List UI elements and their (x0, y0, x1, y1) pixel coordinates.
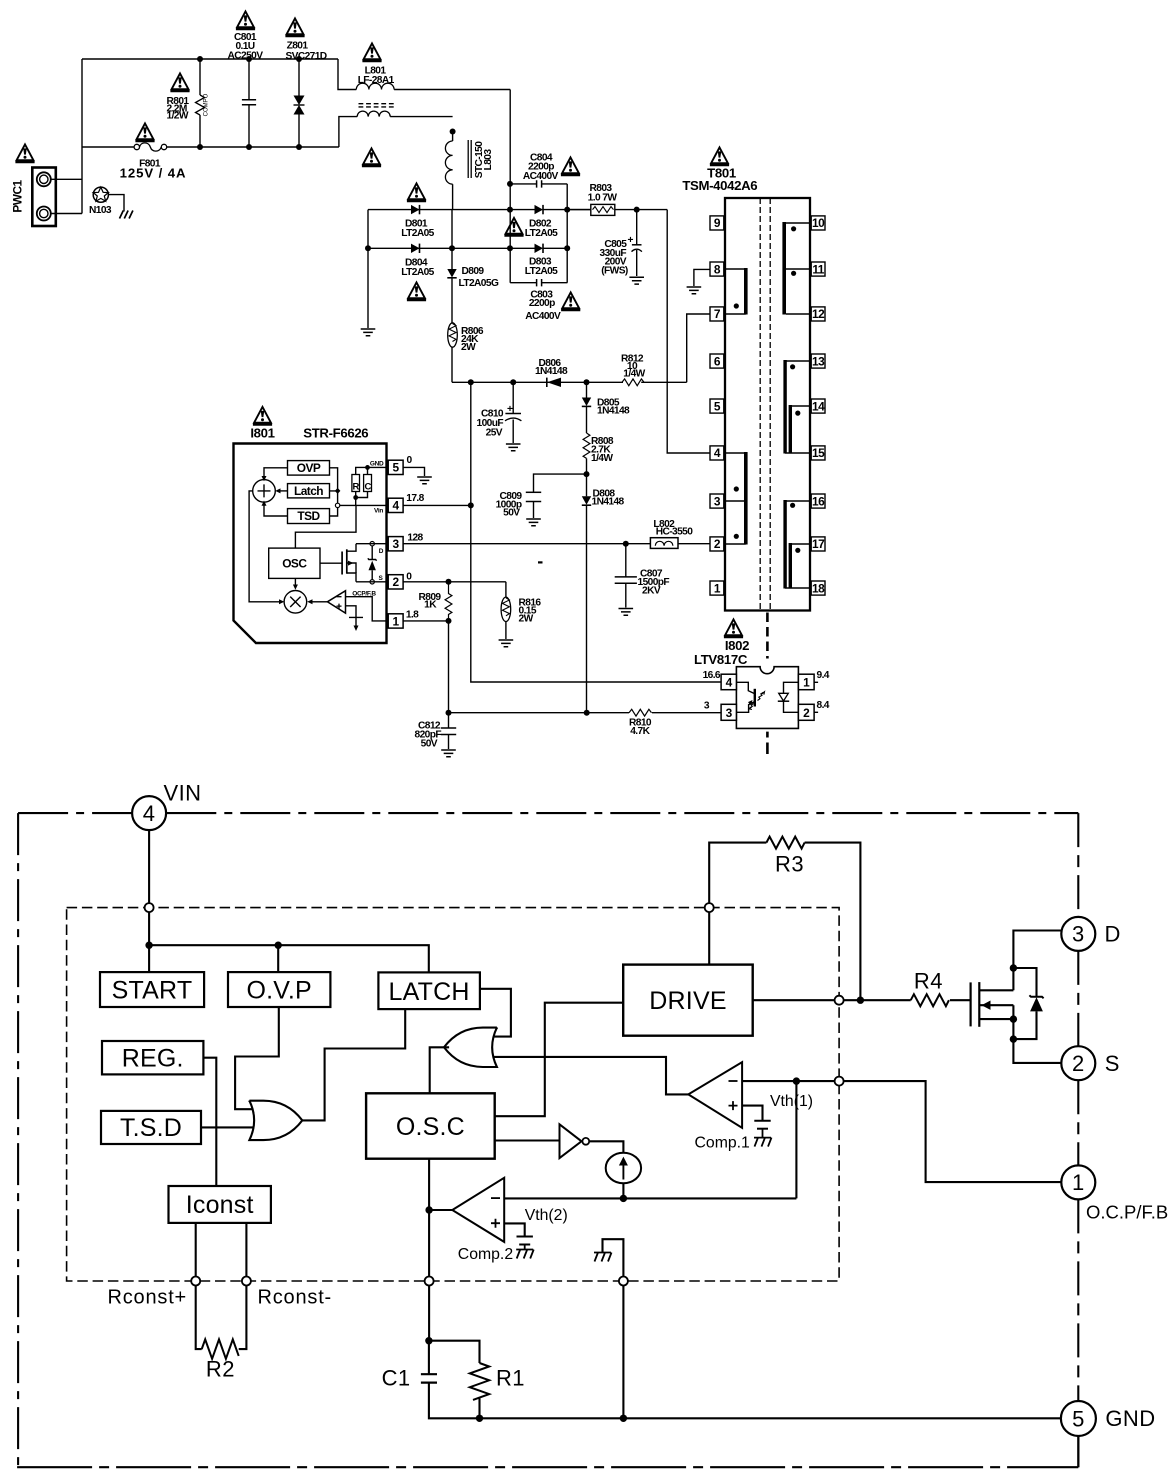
inductor L803 (445, 132, 494, 210)
svg-text:Z801: Z801 (287, 41, 309, 52)
LED (I802) (778, 682, 799, 712)
svg-text:12: 12 (812, 307, 825, 321)
svg-text:Vin: Vin (374, 507, 383, 514)
chassis ground (Vth2) (516, 1250, 534, 1259)
svg-text:18: 18 (812, 581, 825, 595)
svg-text:4: 4 (393, 499, 400, 513)
svg-text:VIN: VIN (164, 781, 202, 806)
current source (606, 1153, 641, 1199)
wire: column from L801 upper output down to C803 (509, 90, 511, 283)
node dot (left vertical D804 row) (365, 245, 371, 251)
stray mark (538, 561, 543, 563)
warning triangle (C801) (236, 11, 255, 29)
wire: R803 node to T801 pin4 (667, 210, 710, 453)
resistor R812 (621, 354, 646, 386)
svg-text:5: 5 (1072, 1406, 1085, 1431)
ground (C812) (441, 750, 456, 757)
block DRIVE (623, 965, 753, 1036)
svg-text:R1: R1 (496, 1366, 525, 1391)
node dot (zener top) (1010, 964, 1017, 971)
junction marker (Vin/bus) (335, 503, 339, 507)
block REG. (102, 1041, 203, 1074)
wire: OSC to inverter (495, 1139, 559, 1141)
svg-text:Iconst: Iconst (186, 1191, 254, 1219)
pin 5 box (I801) (388, 460, 403, 475)
svg-text:AC250V: AC250V (228, 51, 264, 62)
wire: OR2 output to OSC (430, 1047, 449, 1093)
svg-text:9.4: 9.4 (817, 670, 830, 681)
svg-text:S: S (1105, 1051, 1120, 1076)
svg-text:TSD: TSD (297, 509, 320, 523)
block OVP (288, 461, 330, 476)
wire: OSC bottom column (428, 1159, 430, 1277)
OR gate 1 (249, 1101, 302, 1140)
wire: pin1 row (403, 620, 448, 622)
T801 body (725, 198, 810, 611)
wire: Comp2 plus to Vth cap (504, 1223, 525, 1236)
pin 2 box (I801) (388, 575, 403, 590)
svg-text:1/4W: 1/4W (591, 453, 613, 464)
wire: Vin bus (149, 945, 429, 972)
svg-text:+: + (507, 404, 513, 415)
IC I801 outline (234, 444, 387, 644)
pin circle 5 GND (1061, 1401, 1156, 1436)
svg-text:1: 1 (1072, 1170, 1085, 1195)
pin 8 box (710, 262, 724, 276)
node dot (D802 cathode) (564, 207, 570, 213)
warning triangle (D804) (407, 282, 426, 300)
summing node circle (253, 480, 276, 503)
svg-text:Rconst+: Rconst+ (108, 1287, 188, 1309)
ground (C810) (506, 444, 521, 451)
wire: pin2 row to R816 (403, 581, 506, 583)
varistor Z801 (285, 41, 326, 148)
winding pins 17-18 (789, 543, 810, 589)
pin2 stub (814, 711, 818, 713)
svg-text:R4: R4 (914, 969, 943, 994)
ground (left bridge) (361, 329, 376, 336)
wire: R,C bottoms junction (356, 492, 368, 506)
svg-text:3: 3 (393, 537, 400, 551)
wire: R809 column to bottom row (448, 621, 450, 713)
svg-text:OSC: OSC (282, 557, 307, 571)
wire: TSD to summing node (264, 505, 288, 516)
svg-text:2: 2 (393, 575, 400, 589)
pin 14 box (811, 399, 825, 413)
wire: comparator output to multiplier (313, 601, 328, 603)
svg-text:8: 8 (714, 262, 721, 276)
svg-text:LF-28A1: LF-28A1 (358, 75, 395, 86)
svg-text:LT2A05G: LT2A05G (459, 278, 499, 289)
polarity dot (winding 10) (791, 226, 796, 231)
svg-text:4: 4 (143, 801, 156, 826)
svg-text:2200p: 2200p (529, 298, 555, 309)
svg-text:Vth(2): Vth(2) (525, 1207, 568, 1224)
svg-text:+: + (628, 235, 634, 246)
svg-text:DRIVE: DRIVE (649, 987, 726, 1015)
svg-text:50V: 50V (503, 508, 520, 519)
wire: Vin line (pin4) (338, 504, 389, 506)
wire: OVP output to OR1 (235, 1007, 279, 1109)
wire: pin8 to ground (694, 269, 710, 286)
svg-text:GND: GND (370, 460, 384, 467)
node dot (source join) (1010, 1015, 1017, 1022)
capacitor C812 (415, 713, 457, 750)
common-mode choke L801 (338, 59, 510, 147)
wire: bus to OVP (277, 945, 279, 972)
svg-text:2: 2 (714, 537, 721, 551)
svg-text:13: 13 (812, 354, 825, 368)
svg-text:1N4148: 1N4148 (597, 406, 630, 417)
polarity dot (winding 13) (790, 364, 795, 369)
svg-text:C: C (364, 482, 371, 493)
node dot (D802 anode column top) (507, 181, 513, 187)
capacitor C809 (496, 474, 587, 519)
svg-text:1/4W: 1/4W (623, 369, 645, 380)
warning triangle (D802) (504, 218, 523, 236)
svg-text:1N4148: 1N4148 (592, 497, 625, 508)
wire: Comp1 output to OR2 (492, 1057, 688, 1095)
svg-text:LTV817C: LTV817C (694, 652, 748, 667)
node dot (bottom row / C812) (446, 710, 452, 716)
warning triangle (Z801) (285, 18, 304, 36)
svg-text:1K: 1K (424, 600, 437, 611)
pin 1 box (710, 581, 724, 595)
ground (R816) (499, 640, 514, 647)
pin 10 box (811, 216, 825, 230)
wire: ground row to GND pin (480, 1417, 1061, 1419)
capacitor C1 (382, 1341, 480, 1419)
svg-text:T.S.D: T.S.D (120, 1114, 182, 1142)
resistor R809 (419, 582, 452, 621)
wire: GND pin to frame bottom (1077, 1436, 1079, 1467)
wire: chassis column to ground row (622, 1286, 624, 1419)
resistor R (internal) (352, 475, 360, 493)
pin 4 box (I802) (721, 674, 736, 690)
wire: PWC1 pin2 to column (51, 213, 82, 215)
node dot (aux row / Vin column) (468, 379, 474, 385)
resistor R2 (196, 1286, 247, 1382)
ground (C805) (629, 277, 644, 284)
winding pins 10-11-12 (782, 222, 810, 315)
svg-text:O.C.P/F.B: O.C.P/F.B (1086, 1202, 1168, 1223)
svg-text:4: 4 (714, 446, 721, 460)
svg-text:7: 7 (714, 307, 721, 321)
wire: Latch to summing node (280, 490, 288, 492)
winding pins 14-15 (789, 405, 810, 453)
wire: Comp2 output to OSC column (429, 1209, 452, 1211)
svg-text:OVP: OVP (297, 461, 321, 475)
wire: auxiliary row (D806 row) (452, 381, 623, 383)
svg-text:1/2W: 1/2W (167, 111, 189, 122)
fuse F801 (120, 143, 187, 181)
resistor R806 (448, 323, 484, 383)
svg-text:1N4148: 1N4148 (535, 366, 568, 377)
svg-text:N103: N103 (89, 205, 112, 216)
resistor R808 (583, 433, 614, 474)
warning triangle (D801) (407, 183, 426, 201)
block Latch (288, 484, 330, 498)
diode D808 (582, 474, 625, 713)
pin circle 4 VIN (132, 781, 201, 831)
svg-text:LT2A05: LT2A05 (401, 228, 434, 239)
Vth(2) reference cap (517, 1237, 533, 1250)
pin 13 box (811, 354, 825, 368)
resistor R801 (167, 59, 210, 147)
wire: R,C tops to GND line (356, 467, 389, 474)
ground (T801 pin8) (687, 287, 702, 294)
svg-text:STR-F6626: STR-F6626 (303, 426, 368, 441)
warning triangle (I801) (253, 407, 272, 425)
Vth(1) reference cap (754, 1121, 770, 1138)
I802 body (736, 667, 798, 729)
zener (output MOSFET) (1013, 968, 1043, 1039)
outer frame left edge (17, 813, 19, 1467)
svg-text:D: D (379, 548, 384, 555)
node dot (C801 bottom) (246, 144, 252, 150)
inductor L802 (650, 519, 709, 548)
inner dashed box (67, 908, 840, 1281)
svg-text:2W: 2W (519, 613, 534, 624)
wire: REG to Iconst (203, 1058, 216, 1186)
outer dash-dot frame top edge (18, 812, 1078, 814)
node dot (Z801 top) (296, 56, 302, 62)
node dot (aux row / D805 column) (584, 379, 590, 385)
winding pins 16-18 (783, 500, 810, 589)
pin 5 box (710, 399, 724, 413)
pin 1 box (I802) (798, 674, 814, 690)
svg-text:HC-3550: HC-3550 (656, 527, 694, 538)
node dot (bus/START) (145, 942, 152, 949)
node dot (C801 top) (246, 56, 252, 62)
block O.S.C (366, 1093, 495, 1158)
svg-text:5: 5 (393, 461, 400, 475)
warning triangle (I802) (724, 619, 743, 637)
diode D809 (447, 248, 499, 323)
wire: R812 to T801 pin7 (687, 314, 710, 382)
wire: Iconst legs (196, 1223, 247, 1277)
comparator (OCP) (327, 591, 345, 613)
svg-text:L803: L803 (483, 149, 494, 171)
svg-text:D809: D809 (462, 266, 485, 277)
svg-text:O.V.P: O.V.P (246, 976, 311, 1004)
svg-text:I801: I801 (250, 426, 274, 441)
wire: pin3 row to L802 (403, 543, 650, 545)
pin 6 box (710, 354, 724, 368)
wire: VIN down to bus (148, 830, 150, 945)
wire: pin3 line internal (356, 543, 388, 545)
wire: left vertical from PWC1 to top rail (81, 59, 83, 214)
wire: top AC rail (82, 58, 338, 60)
wire: drain to pin3 D (1013, 931, 1061, 991)
resistor R1 (429, 1341, 525, 1419)
OR gate 2 (mirrored) (444, 1028, 497, 1067)
svg-text:11: 11 (812, 262, 824, 276)
svg-text:6: 6 (714, 354, 721, 368)
svg-text:LT2A05: LT2A05 (525, 266, 558, 277)
photo arrows (I802) (758, 692, 764, 700)
winding pins 8-7 (725, 268, 748, 315)
open circle (Rconst+) (191, 1277, 200, 1286)
pin 1 box (I801) (388, 614, 403, 629)
svg-text:I802: I802 (725, 638, 749, 653)
svg-text:Comp.2: Comp.2 (458, 1246, 513, 1263)
resistor R810 (629, 709, 652, 737)
svg-text:10: 10 (812, 216, 825, 230)
svg-text:2: 2 (1072, 1051, 1085, 1076)
junction marker (zener top / pin3) (370, 542, 374, 546)
node dot (R1 bottom) (476, 1415, 483, 1422)
wire: bottom AC rail fuse to L801 (167, 146, 339, 148)
svg-text:TSM-4042A6: TSM-4042A6 (682, 178, 757, 193)
svg-text:3: 3 (726, 706, 733, 720)
polarity dot (winding 4-3) (734, 486, 739, 491)
pin 17 box (811, 537, 825, 551)
wire: comparator minus to pin1 (346, 597, 389, 621)
wire: pin2 line internal (356, 581, 388, 583)
chassis ground (stub) (594, 1253, 612, 1262)
wire: Comp1 minus row to pin1 (742, 1081, 1062, 1182)
wire: LATCH output to OR2 (480, 989, 511, 1037)
svg-text:16.6: 16.6 (703, 670, 721, 681)
open circle (R3 leg on dashed box) (705, 903, 714, 912)
svg-text:16: 16 (812, 494, 825, 508)
node dot (pin2 row / R809) (446, 579, 452, 585)
wire: pin4 row (403, 504, 471, 506)
svg-text:LT2A05: LT2A05 (525, 228, 558, 239)
ground (C809) (526, 519, 541, 526)
svg-text:8.4: 8.4 (817, 700, 830, 711)
internal ground arrow (comparator) (349, 617, 363, 626)
warning triangle (C803) (561, 292, 580, 310)
zener (internal body diode) (368, 544, 377, 582)
warning triangle (PWC1) (15, 144, 34, 162)
svg-text:AC400V: AC400V (523, 171, 559, 182)
pin 9 box (710, 216, 724, 230)
svg-text:PWC1: PWC1 (11, 179, 25, 212)
node dot (D803 cathode) (564, 245, 570, 251)
wire: L803 column to D804 row (451, 210, 453, 249)
pin 11 box (811, 262, 825, 276)
wire: comparator plus to internal gnd (346, 606, 357, 618)
wire: N103 to chassis (108, 195, 124, 212)
svg-text:9: 9 (714, 216, 721, 230)
outer frame right edge segments (1077, 813, 1079, 1467)
dashed link T801 to I802 (766, 613, 769, 659)
svg-text:1.8: 1.8 (406, 609, 419, 620)
node dot (chassis column / ground row) (620, 1415, 627, 1422)
pin1 stub (814, 681, 818, 683)
T801 core dashed lines (760, 198, 770, 611)
polarity dot (winding 11) (791, 271, 796, 276)
pin 3 box (I801) (388, 537, 403, 552)
block OSC (269, 548, 320, 578)
diode D804 (368, 244, 510, 278)
node dot (zener bottom) (1010, 1035, 1017, 1042)
open circle (Rconst-) (242, 1277, 251, 1286)
svg-text:COMPO: COMPO (204, 93, 210, 116)
svg-text:(FWS): (FWS) (601, 266, 628, 277)
node dot (Z801 bottom) (296, 144, 302, 150)
svg-text:GND: GND (1105, 1406, 1155, 1431)
outer frame bottom edge (17, 1466, 1078, 1468)
polarity dot (winding 14) (795, 411, 800, 416)
svg-text:1: 1 (393, 614, 400, 628)
dashed link below I802 (766, 732, 769, 754)
polarity dot (winding 3-2) (734, 534, 739, 539)
wire: Comp1 plus to Vth cap (742, 1106, 762, 1121)
diode D803 (510, 244, 567, 277)
block TSD (288, 509, 330, 524)
svg-text:25V: 25V (486, 427, 503, 438)
neutral point N103 (89, 187, 112, 216)
phototransistor (I802) (736, 682, 754, 712)
pin 4 box (I801) (388, 498, 403, 513)
warning triangle (C804) (561, 157, 580, 175)
diode D806 (535, 358, 568, 387)
svg-text:REG.: REG. (122, 1045, 184, 1073)
pin 4 box (710, 446, 724, 460)
svg-text:C1: C1 (382, 1366, 411, 1391)
wire: left bridge vertical (367, 210, 369, 328)
svg-text:3: 3 (714, 494, 721, 508)
multiplier circle (284, 591, 307, 614)
diode D802 (510, 205, 591, 239)
block START (100, 972, 204, 1007)
node dot (R/C bottom) (353, 495, 358, 500)
capacitor C (internal) (364, 475, 372, 493)
resistor R4 (911, 969, 970, 1007)
svg-text:LATCH: LATCH (389, 978, 470, 1006)
resistor R816 (501, 582, 541, 639)
wire: OVP to summing node (264, 468, 288, 477)
wire: OSC bottom to multiplier (294, 578, 296, 585)
svg-text:128: 128 (407, 533, 423, 544)
node dot (L803 top) (450, 129, 456, 135)
polarity dot (winding 8-7) (734, 303, 739, 308)
open circle (Comp1 minus on dashed box) (835, 1077, 844, 1086)
polarity dot (winding 17) (795, 548, 800, 553)
comparator Comp.2 (452, 1178, 513, 1263)
node dot (C top) (365, 465, 370, 470)
node dot (R808 / C809 / D808) (584, 471, 590, 477)
node dot (R801 bottom) (197, 144, 203, 150)
pin 18 box (811, 581, 825, 595)
wire: OR1 output to LATCH (302, 1009, 405, 1120)
polarity dot (winding 16) (790, 503, 795, 508)
resistor R803 (567, 183, 667, 215)
svg-text:125V / 4A: 125V / 4A (120, 166, 187, 181)
svg-text:4: 4 (726, 676, 733, 690)
wire: OSC column below dashed box (428, 1286, 430, 1341)
node dot (R801 top) (197, 56, 203, 62)
node dot (C1/R1 top) (425, 1337, 432, 1344)
capacitor C804 (510, 153, 567, 188)
junction marker (zener bottom / pin2) (370, 580, 374, 584)
pin 12 box (811, 307, 825, 321)
open circle (OSC column on dashed box) (425, 1277, 434, 1286)
svg-text:Latch: Latch (294, 484, 323, 498)
node dot (D802 anode) (507, 207, 513, 213)
pin circle 3 D (1061, 917, 1120, 951)
open circle (VIN on dashed box) (145, 903, 154, 912)
block O.V.P (228, 972, 330, 1007)
node dot (L803 / D804 row) (449, 245, 455, 251)
diode D805 (582, 382, 630, 433)
svg-text:17: 17 (812, 537, 825, 551)
node dot (bus/OVP) (275, 942, 282, 949)
pin 16 box (811, 494, 825, 508)
